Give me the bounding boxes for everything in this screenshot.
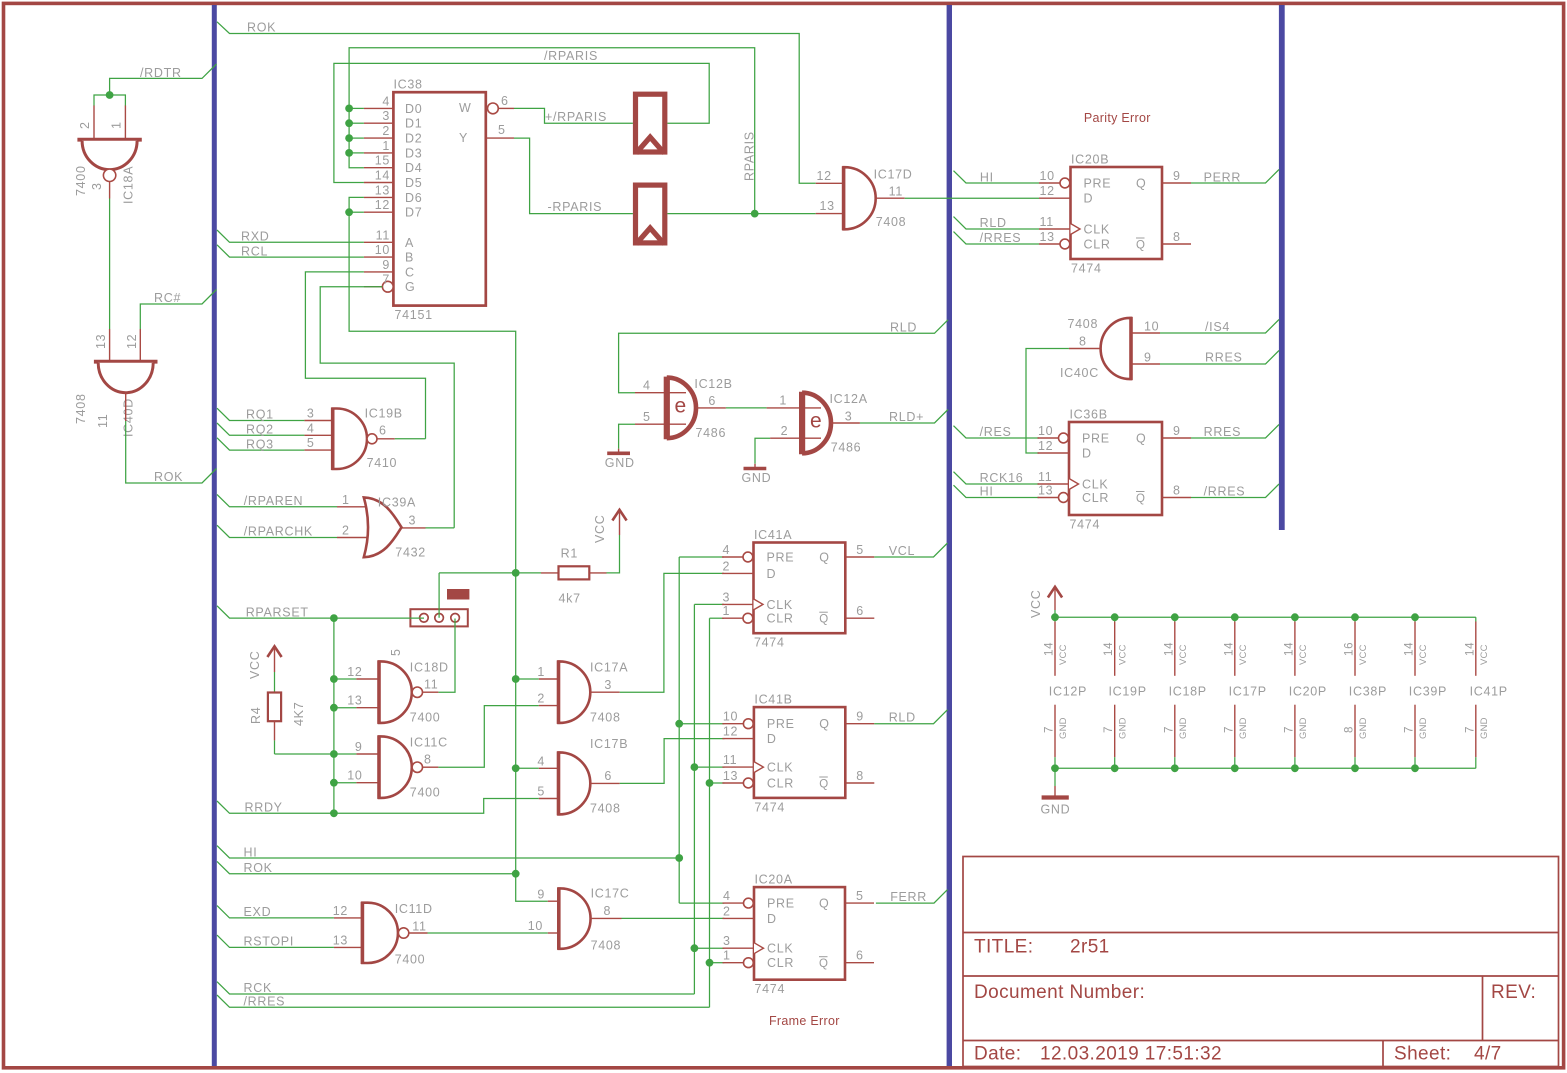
svg-text:IC17B: IC17B xyxy=(590,737,628,751)
wire EXD xyxy=(217,906,334,918)
svg-text:RQ2: RQ2 xyxy=(246,423,274,437)
power pins IC17P xyxy=(1223,613,1267,772)
nand gate IC11D xyxy=(334,917,363,919)
svg-text:11: 11 xyxy=(1040,215,1054,229)
svg-text:D1: D1 xyxy=(405,117,422,131)
wire /RPARIS rail upper xyxy=(349,48,755,214)
wire to IC11C.10 xyxy=(334,782,357,784)
svg-text:/RPARIS: /RPARIS xyxy=(544,49,598,63)
wire D6 D7 to R1 node xyxy=(349,197,516,573)
gate IC18D pin 11 output xyxy=(423,691,439,693)
svg-text:IC41A: IC41A xyxy=(754,528,792,542)
svg-text:VCC: VCC xyxy=(593,515,607,544)
svg-text:7474: 7474 xyxy=(755,982,786,996)
wire R1 node xyxy=(439,572,541,574)
svg-text:VCC: VCC xyxy=(1118,644,1129,665)
svg-text:8: 8 xyxy=(604,904,612,918)
svg-text:CLK: CLK xyxy=(767,598,793,612)
svg-text:G: G xyxy=(405,280,415,294)
flip-flop IC41A body xyxy=(754,543,846,634)
svg-text:14: 14 xyxy=(1163,642,1175,656)
nand gate IC11C xyxy=(356,753,379,755)
wire IC11C.8 to IC17A.2 xyxy=(438,706,538,768)
svg-text:1: 1 xyxy=(342,493,350,507)
svg-text:6: 6 xyxy=(708,394,716,408)
svg-text:PRE: PRE xyxy=(767,551,795,565)
wire IC18A.3 to IC40D.13 xyxy=(109,199,111,330)
and gate IC40C mirrored xyxy=(1101,318,1131,379)
svg-text:IC17A: IC17A xyxy=(590,661,628,675)
svg-text:IC17P: IC17P xyxy=(1229,685,1267,699)
svg-text:2: 2 xyxy=(78,121,92,129)
gate IC19B pin 6 output xyxy=(377,438,395,440)
svg-text:IC12P: IC12P xyxy=(1049,685,1087,699)
IC20A pin 6 Qbar xyxy=(845,962,874,964)
svg-text:4: 4 xyxy=(382,94,390,108)
IC36B pin 9 Q xyxy=(1162,437,1191,439)
svg-text:3: 3 xyxy=(723,934,731,948)
svg-text:CLK: CLK xyxy=(767,942,793,956)
svg-text:RQ1: RQ1 xyxy=(246,408,274,422)
IC20B pin 9 Q xyxy=(1162,182,1191,184)
svg-text:74151: 74151 xyxy=(395,308,433,322)
svg-text:CLR: CLR xyxy=(1084,238,1111,252)
svg-text:VCC: VCC xyxy=(1238,644,1249,665)
svg-text:C: C xyxy=(405,265,415,279)
IC41B pin 8 Qbar xyxy=(845,782,874,784)
wire VCC2 to R4 xyxy=(274,672,276,693)
wire RCK vertical xyxy=(693,604,695,994)
svg-text:7400: 7400 xyxy=(410,786,441,800)
svg-text:6: 6 xyxy=(604,769,612,783)
junction HI xyxy=(675,854,683,862)
svg-text:IC19P: IC19P xyxy=(1109,685,1147,699)
junction IC41B.CLR xyxy=(706,779,714,787)
wire /RRES to IC20B.CLR xyxy=(954,232,1040,244)
svg-text:Parity Error: Parity Error xyxy=(1084,111,1151,125)
svg-text:9: 9 xyxy=(1144,351,1152,365)
svg-text:8: 8 xyxy=(1344,726,1356,733)
flip-flop IC20B body xyxy=(1071,167,1163,259)
svg-text:3: 3 xyxy=(409,514,417,528)
svg-text:/RRES: /RRES xyxy=(244,994,286,1008)
gate IC18A pins 1 2 xyxy=(93,106,95,140)
junction R1 node xyxy=(512,569,520,577)
wire to IC41A.CLR xyxy=(710,617,725,619)
resistor R4 xyxy=(268,693,281,722)
svg-text:7: 7 xyxy=(1283,726,1295,733)
svg-text:CLK: CLK xyxy=(767,761,793,775)
svg-text:IC20B: IC20B xyxy=(1071,153,1109,167)
IC20B pin 12 D xyxy=(1039,197,1071,199)
svg-text:VCC: VCC xyxy=(1298,644,1309,665)
svg-text:1: 1 xyxy=(537,665,545,679)
xor gate IC12A xyxy=(767,407,821,409)
svg-text:4/7: 4/7 xyxy=(1474,1044,1502,1065)
IC41A pin 1 CLR xyxy=(722,617,743,619)
svg-text:PRE: PRE xyxy=(1084,177,1112,191)
svg-text:/RPAREN: /RPAREN xyxy=(244,494,304,508)
svg-text:10: 10 xyxy=(375,243,390,257)
power pins IC20P xyxy=(1283,613,1327,772)
IC20B pin 13 CLR xyxy=(1039,243,1060,245)
svg-text:7408: 7408 xyxy=(591,939,622,953)
wire HI mid xyxy=(217,846,679,858)
svg-text:Q: Q xyxy=(819,897,829,911)
svg-text:5: 5 xyxy=(537,785,545,799)
svg-text:8: 8 xyxy=(856,769,864,783)
svg-text:2: 2 xyxy=(723,559,731,573)
svg-text:11: 11 xyxy=(424,678,438,692)
wire RRES to IC40C.9 xyxy=(1160,351,1279,365)
svg-text:6: 6 xyxy=(856,604,864,618)
svg-text:VCC: VCC xyxy=(1418,644,1429,665)
gate IC40C pin 10 input xyxy=(1131,332,1160,334)
wire /RES to IC36B.PRE xyxy=(954,426,1040,438)
gate IC11C pin 8 output xyxy=(423,766,439,768)
gate IC17C pin 8 output xyxy=(591,917,622,919)
wire to IC17B.4 xyxy=(516,767,539,769)
svg-text:7432: 7432 xyxy=(395,546,426,560)
IC38 pin 15 D4 xyxy=(364,167,394,169)
svg-text:Q: Q xyxy=(1136,493,1146,505)
svg-text:11: 11 xyxy=(376,228,390,242)
svg-text:Frame Error: Frame Error xyxy=(769,1014,840,1028)
svg-text:7474: 7474 xyxy=(754,636,785,650)
svg-text:13: 13 xyxy=(333,934,348,948)
wire PERR xyxy=(1191,170,1279,184)
junctions D0-D3 xyxy=(345,105,353,113)
wire IC12A.2 to GND xyxy=(755,438,770,464)
svg-text:2: 2 xyxy=(781,424,789,438)
svg-text:15: 15 xyxy=(375,154,390,168)
svg-text:8: 8 xyxy=(1079,335,1087,349)
svg-text:7: 7 xyxy=(1163,726,1175,733)
power pins IC18P xyxy=(1163,613,1207,772)
svg-text:2: 2 xyxy=(723,904,731,918)
svg-text:RCL: RCL xyxy=(241,245,268,259)
wire RXD xyxy=(217,230,364,242)
and gate IC17D xyxy=(816,182,844,184)
mux IC38 body xyxy=(393,92,485,305)
IC41A pin 4 PRE xyxy=(722,556,743,558)
svg-text:7408: 7408 xyxy=(876,215,907,229)
svg-text:3: 3 xyxy=(723,590,731,604)
svg-text:11: 11 xyxy=(723,753,737,767)
junction /RDTR xyxy=(106,91,114,99)
svg-text:IC12B: IC12B xyxy=(694,377,732,391)
svg-text:Sheet:: Sheet: xyxy=(1394,1044,1451,1065)
svg-text:CLR: CLR xyxy=(1082,491,1109,505)
wire HI PRE vertical xyxy=(678,557,680,903)
wire RC# xyxy=(140,290,216,330)
svg-text:RLD: RLD xyxy=(889,711,916,725)
IC41A pin 5 Q xyxy=(845,556,874,558)
svg-text:EXD: EXD xyxy=(244,905,272,919)
svg-text:14: 14 xyxy=(1103,642,1115,656)
IC38 pin 7 G xyxy=(364,286,382,288)
svg-text:3: 3 xyxy=(604,678,612,692)
svg-text:ROK: ROK xyxy=(154,470,183,484)
svg-text:IC20P: IC20P xyxy=(1289,685,1327,699)
supply VCC1 xyxy=(612,510,626,521)
svg-text:13: 13 xyxy=(375,183,390,197)
svg-text:R1: R1 xyxy=(561,547,578,561)
flag F1 xyxy=(636,94,665,153)
svg-text:7: 7 xyxy=(1404,726,1416,733)
svg-text:IC19B: IC19B xyxy=(365,407,403,421)
svg-text:7: 7 xyxy=(1223,726,1235,733)
svg-text:RLD: RLD xyxy=(890,321,917,335)
wire ROK mid xyxy=(217,861,516,873)
svg-text:7400: 7400 xyxy=(74,165,88,196)
svg-text:R4: R4 xyxy=(249,707,263,724)
svg-text:13: 13 xyxy=(94,334,108,349)
svg-text:7486: 7486 xyxy=(696,426,727,440)
wire IC38.C to IC19B.6 xyxy=(305,272,425,439)
svg-text:GND: GND xyxy=(1178,717,1189,739)
svg-text:9: 9 xyxy=(856,710,864,724)
svg-text:12: 12 xyxy=(375,198,390,212)
and gate IC40D xyxy=(94,360,158,364)
svg-text:16: 16 xyxy=(1344,642,1356,656)
wire to IC20A.CLK xyxy=(694,947,724,949)
wire to IC41B.CLK xyxy=(694,766,724,768)
wire VCL xyxy=(874,543,947,557)
svg-text:7408: 7408 xyxy=(590,711,621,725)
svg-text:7: 7 xyxy=(1044,726,1056,733)
svg-text:7408: 7408 xyxy=(1068,317,1099,331)
svg-text:RCK: RCK xyxy=(244,981,273,995)
svg-text:IC18P: IC18P xyxy=(1169,685,1207,699)
svg-text:10: 10 xyxy=(1144,320,1159,334)
svg-text:GND: GND xyxy=(1118,717,1129,739)
svg-text:Q: Q xyxy=(819,614,829,626)
svg-text:D3: D3 xyxy=(405,146,422,160)
wire RCK xyxy=(217,982,694,994)
svg-text:2: 2 xyxy=(537,692,545,706)
svg-text:PERR: PERR xyxy=(1204,171,1242,185)
wire RRES from IC36B.Q xyxy=(1191,425,1279,439)
svg-text:D0: D0 xyxy=(405,102,422,116)
svg-text:9: 9 xyxy=(355,740,363,754)
jumper J5 xyxy=(410,609,467,626)
flip-flop IC20A body xyxy=(754,887,845,980)
svg-text:D6: D6 xyxy=(405,191,422,205)
IC38 pin 14 D5 xyxy=(364,182,394,184)
svg-text:11: 11 xyxy=(96,414,110,428)
svg-text:PRE: PRE xyxy=(1082,432,1110,446)
wire to IC41A.CLK xyxy=(694,603,724,605)
svg-text:12: 12 xyxy=(125,334,139,349)
svg-text:4: 4 xyxy=(307,421,315,435)
svg-text:3: 3 xyxy=(845,410,853,424)
svg-text:6: 6 xyxy=(856,949,864,963)
junction IC20A.CLK xyxy=(691,944,699,952)
svg-text:RCK16: RCK16 xyxy=(980,471,1024,485)
svg-text:12.03.2019 17:51:32: 12.03.2019 17:51:32 xyxy=(1040,1044,1222,1065)
wire FERR xyxy=(876,890,948,904)
wires IC38 D0-D3 taps xyxy=(349,107,364,109)
svg-text:14: 14 xyxy=(1404,642,1416,656)
svg-text:VCC: VCC xyxy=(1058,644,1069,665)
svg-text:ROK: ROK xyxy=(247,21,276,35)
wire /RRES from IC36B.Qbar xyxy=(1191,484,1279,498)
IC36B pin 10 PRE xyxy=(1038,437,1059,439)
svg-text:IC39P: IC39P xyxy=(1409,685,1447,699)
svg-text:14: 14 xyxy=(1044,642,1056,656)
svg-text:IC36B: IC36B xyxy=(1070,408,1108,422)
svg-text:7474: 7474 xyxy=(1070,518,1101,532)
wire jumper right to IC18D.11 xyxy=(438,619,455,693)
gate IC11D pin 11 output xyxy=(409,932,428,934)
svg-text:VCL: VCL xyxy=(889,544,915,558)
svg-text:RRDY: RRDY xyxy=(245,801,283,815)
flip-flop IC41B body xyxy=(754,707,845,798)
wire /RRES vertical xyxy=(709,618,711,1007)
wire ROK top xyxy=(217,22,816,184)
svg-text:IC41B: IC41B xyxy=(754,693,792,707)
IC38 pin 1 D3 xyxy=(364,152,394,154)
svg-text:IC11D: IC11D xyxy=(395,902,433,916)
wire to IC18D.12 xyxy=(334,678,357,680)
gate IC40D pin 11 output xyxy=(125,393,127,421)
svg-text:IC38P: IC38P xyxy=(1349,685,1387,699)
wire RRDY xyxy=(217,799,539,814)
wire ROK from IC40D xyxy=(126,421,217,483)
wire IC38.W +/RPARIS xyxy=(514,108,633,123)
svg-text:IC38: IC38 xyxy=(394,78,423,92)
wire to IC17A.1 xyxy=(516,678,539,680)
nand gate IC18A xyxy=(77,138,141,142)
svg-text:RPARSET: RPARSET xyxy=(246,605,309,619)
svg-text:D: D xyxy=(1084,192,1094,206)
svg-text:RPARIS: RPARIS xyxy=(743,131,757,181)
svg-text:5: 5 xyxy=(856,543,864,557)
svg-text:HI: HI xyxy=(244,845,258,859)
svg-text:10: 10 xyxy=(1040,169,1055,183)
wire VCC1 to R1 xyxy=(607,535,620,573)
wire IC19B.6 xyxy=(395,438,426,440)
wire IC40C.8 to IC36B.D xyxy=(1026,349,1069,454)
svg-text:12: 12 xyxy=(347,665,362,679)
wire RCK16 to IC36B.CLK xyxy=(954,472,1040,484)
supply VCC3 xyxy=(1048,587,1062,598)
svg-text:D: D xyxy=(767,732,777,746)
svg-text:7400: 7400 xyxy=(395,953,426,967)
and gate IC17C xyxy=(548,900,559,902)
IC41B pin 11 CLK xyxy=(722,766,754,768)
svg-text:Y: Y xyxy=(459,131,468,145)
wire RQ3 xyxy=(217,438,304,450)
svg-text:HI: HI xyxy=(980,171,994,185)
svg-text:13: 13 xyxy=(1038,484,1053,498)
svg-text:4k7: 4k7 xyxy=(559,592,581,606)
wire RLD to IC12B.4 xyxy=(619,320,948,393)
IC20B pin 8 Qbar xyxy=(1162,243,1191,245)
wire IC17C.8 to IC20A.D xyxy=(622,917,725,919)
svg-text:HI: HI xyxy=(980,485,994,499)
wire to IC11C.9 xyxy=(275,753,357,755)
IC36B pin 13 CLR xyxy=(1038,497,1059,499)
wire /RRES xyxy=(217,995,710,1007)
wire GND rail stub xyxy=(1054,768,1056,786)
IC38 pin 11 A xyxy=(364,241,394,243)
svg-text:/IS4: /IS4 xyxy=(1205,320,1230,334)
wire HI to IC36B.CLR xyxy=(954,485,1040,497)
svg-text:/RPARCHK: /RPARCHK xyxy=(244,525,313,539)
svg-text:Q: Q xyxy=(819,958,829,970)
svg-text:VCC: VCC xyxy=(1029,590,1043,619)
IC38 pin 12 D7 xyxy=(364,211,394,213)
svg-text:D: D xyxy=(767,912,777,926)
IC41A pin 2 D xyxy=(722,572,754,574)
xor gate IC12B xyxy=(635,392,686,394)
wire jumper mid to R1 node xyxy=(438,573,440,618)
svg-text:4: 4 xyxy=(643,379,651,393)
wire R4 to IC11C.9 xyxy=(274,740,276,754)
svg-text:14: 14 xyxy=(375,169,390,183)
svg-text:4: 4 xyxy=(537,754,545,768)
wire IC38.Y -RPARIS xyxy=(514,138,633,214)
gate IC40C pin 9 input xyxy=(1131,363,1160,365)
power pins IC41P xyxy=(1464,617,1508,768)
wire IC17B.6 to IC41B.D xyxy=(620,739,725,784)
svg-text:7408: 7408 xyxy=(74,393,88,424)
IC20B pin 10 PRE xyxy=(1039,182,1060,184)
wire to IC41B.CLR xyxy=(710,782,725,784)
gate IC12B pin 6 output xyxy=(696,407,726,409)
svg-text:D: D xyxy=(767,567,777,581)
wire IC11D.11 to IC17C.10 xyxy=(428,932,548,934)
bus B2 xyxy=(947,5,952,1066)
wire HI to IC20B.PRE xyxy=(954,171,1040,183)
svg-text:Q: Q xyxy=(1136,177,1146,191)
svg-text:7486: 7486 xyxy=(831,441,862,455)
svg-text:CLR: CLR xyxy=(767,612,794,626)
svg-text:IC17D: IC17D xyxy=(874,168,913,182)
svg-text:RLD: RLD xyxy=(980,216,1007,230)
IC38 pin 9 C xyxy=(364,271,394,273)
svg-text:IC18D: IC18D xyxy=(410,661,449,675)
svg-text:GND: GND xyxy=(1041,803,1071,817)
bus B1 xyxy=(212,5,217,1066)
svg-text:7408: 7408 xyxy=(590,802,621,816)
svg-text:7410: 7410 xyxy=(367,456,398,470)
svg-text:4: 4 xyxy=(723,889,731,903)
svg-text:REV:: REV: xyxy=(1491,982,1536,1003)
nand gate IC18D xyxy=(356,678,379,680)
svg-text:GND: GND xyxy=(1238,717,1249,739)
junction D7 xyxy=(345,208,353,216)
IC41A pin 6 Qbar xyxy=(845,617,874,619)
junction IC20A.CLR xyxy=(706,959,714,967)
svg-text:VCC: VCC xyxy=(1178,644,1189,665)
svg-text:IC39A: IC39A xyxy=(378,496,416,510)
junction IC41B.CLK xyxy=(691,763,699,771)
svg-text:7: 7 xyxy=(1103,726,1115,733)
wire VCC rail top xyxy=(1055,610,1476,617)
svg-text:GND: GND xyxy=(1058,717,1069,739)
svg-text:7: 7 xyxy=(1464,726,1476,733)
svg-text:9: 9 xyxy=(382,258,390,272)
svg-text:B: B xyxy=(405,251,414,265)
IC41B pin 10 PRE xyxy=(722,723,743,725)
flag F2 xyxy=(636,185,665,244)
wire HI vertical main xyxy=(516,573,548,901)
IC38 pin 4 D0 xyxy=(364,107,394,109)
svg-text:3: 3 xyxy=(90,182,104,190)
